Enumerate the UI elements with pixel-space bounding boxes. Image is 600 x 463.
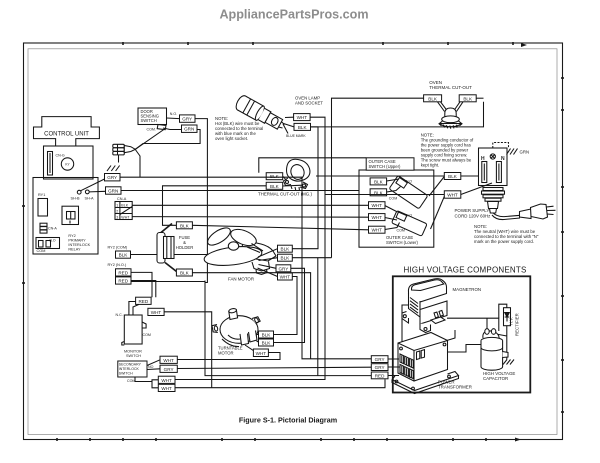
svg-text:GRY: GRY [375, 357, 385, 362]
svg-text:N.O: N.O [50, 238, 56, 242]
frame tick marks [22, 42, 564, 441]
wire sec interlock to GRY [147, 368, 160, 371]
svg-text:BLK: BLK [281, 256, 291, 261]
wire door GRY vertical [130, 119, 207, 255]
svg-text:GRN: GRN [184, 127, 194, 132]
label BLK (oven tco right) [459, 95, 476, 102]
svg-text:CN-A: CN-A [117, 197, 127, 201]
wire red1 elbow [131, 272, 152, 297]
svg-text:GRY: GRY [182, 117, 192, 122]
wire fuse BLK top run [192, 225, 368, 230]
high voltage box [393, 276, 531, 392]
svg-text:Figure S-1. Pictorial Diagram: Figure S-1. Pictorial Diagram [239, 416, 337, 425]
svg-text:NOTE:The grounding conductor o: NOTE:The grounding conductor ofthe power… [421, 133, 474, 168]
svg-text:COM.: COM. [147, 127, 156, 131]
svg-text:COM: COM [389, 197, 397, 201]
svg-text:RECTIFIER: RECTIFIER [514, 313, 519, 336]
frame arrows [521, 43, 527, 47]
label BLK (tt 2) [259, 339, 274, 346]
wire connector ground stem [118, 155, 120, 163]
wire sec interlock to WHT [147, 360, 160, 366]
svg-text:COM: COM [143, 333, 151, 337]
oven thermal cut-out device [438, 102, 464, 129]
label GRN (door) [182, 125, 198, 132]
wire fan BLK2 down [292, 258, 331, 376]
wire sec GRY to xfmr GRY2 [177, 367, 371, 368]
wire magnetron right to rectifier [447, 318, 499, 331]
ground receptacle [493, 143, 509, 149]
wire CN-A row3 run [132, 216, 368, 219]
svg-text:RED: RED [118, 279, 128, 284]
svg-text:MONITORSWITCH: MONITORSWITCH [124, 350, 142, 359]
label RED (monitor) [136, 297, 152, 304]
connector CN-A block [115, 202, 132, 220]
svg-text:N.C.: N.C. [116, 313, 123, 317]
connector 3-pin door [113, 144, 136, 155]
wire blue mark pointer [283, 124, 288, 134]
label BLK (lamp) [294, 123, 311, 130]
svg-text:N.O: N.O [406, 214, 412, 218]
svg-text:WHT: WHT [121, 215, 130, 219]
svg-text:THERMAL CUT-OUT (MG.): THERMAL CUT-OUT (MG.) [258, 192, 312, 197]
svg-text:SH-A: SH-A [85, 196, 95, 200]
svg-text:BLK: BLK [298, 125, 308, 130]
svg-text:FAN MOTOR: FAN MOTOR [228, 277, 254, 282]
svg-text:WHT: WHT [447, 193, 458, 198]
svg-text:CONTROL UNIT: CONTROL UNIT [44, 131, 89, 137]
svg-text:BLK: BLK [281, 247, 291, 252]
wire red3 to monitor [129, 302, 136, 316]
label GRY (xfmr 2) [371, 364, 388, 371]
svg-text:GRY: GRY [164, 367, 174, 372]
wire lamp to WHT [285, 116, 294, 118]
wire connector down lead [135, 150, 140, 178]
svg-text:BLK: BLK [374, 179, 384, 184]
wire monitor com lever [142, 322, 146, 328]
svg-text:GRY: GRY [107, 175, 117, 180]
wire monitor wht [164, 312, 212, 388]
label RED (ry2 1) [116, 269, 132, 276]
svg-text:BLK: BLK [180, 271, 190, 276]
svg-text:BLK: BLK [463, 96, 473, 101]
wire red2 elbow [131, 281, 156, 298]
svg-text:SH-B: SH-B [71, 196, 81, 200]
wire lamp to BLK [284, 124, 295, 127]
border frame inner [28, 49, 557, 435]
svg-text:RED: RED [138, 299, 148, 304]
wire fan WHT down to tt BLK1 [274, 277, 298, 335]
svg-text:WHT: WHT [371, 228, 382, 233]
oven lamp and socket [234, 94, 287, 133]
wire rectifier to capacitor [496, 326, 507, 360]
label GRY (control) [105, 174, 121, 181]
svg-text:CN-G: CN-G [56, 154, 65, 158]
svg-text:AppliancePartsPros.com: AppliancePartsPros.com [219, 8, 368, 22]
wire sec WHT2 bottom run [175, 379, 385, 387]
svg-text:RY2 (N.O.): RY2 (N.O.) [108, 263, 127, 267]
wire tt WHT to sec interlock [177, 353, 280, 360]
label BLK (fan 1) [278, 245, 293, 252]
secondary interlock switch [118, 361, 147, 377]
svg-text:WHT: WHT [161, 386, 172, 391]
svg-text:POWER SUPPLYCORD 120V 60Hz: POWER SUPPLYCORD 120V 60Hz [455, 208, 491, 219]
border frame outer [24, 43, 563, 440]
control board CN-G [44, 146, 94, 179]
wire receptacle WHT to bus [325, 194, 444, 196]
label RED (ry2 2) [116, 277, 132, 284]
wire ocs upper leads [387, 179, 400, 181]
svg-text:BLK: BLK [121, 203, 128, 207]
svg-text:COM: COM [397, 229, 405, 233]
svg-text:BLK: BLK [448, 174, 458, 179]
wire oven tco left run [259, 98, 424, 173]
wire fuse BLK bottom run [192, 273, 310, 359]
wire GRN to SH-A [89, 190, 105, 193]
wire CN-A row1 run [132, 204, 368, 206]
N.O. terminal block [36, 238, 60, 249]
svg-text:BLK: BLK [180, 223, 190, 228]
node SH-B [77, 190, 81, 194]
outer case switch enclosure [359, 170, 434, 247]
svg-text:1: 1 [116, 203, 118, 207]
wire fan GRY down to tt BLK2 [274, 268, 305, 342]
power transformer [392, 333, 459, 394]
svg-text:COM: COM [37, 249, 46, 253]
svg-text:RED: RED [375, 373, 385, 378]
svg-text:N: N [501, 156, 505, 162]
label BLK (ocs upper 2) [370, 189, 387, 196]
svg-text:NO: NO [148, 365, 154, 369]
label WHT (tt) [253, 349, 268, 357]
svg-text:WHT: WHT [280, 275, 291, 280]
label BLK (fuse bottom) [176, 269, 192, 276]
label WHT (receptacle) [444, 191, 461, 198]
connector CN-A (panel) [40, 223, 47, 233]
label WHT (sec 2) [158, 376, 175, 383]
power cord strain relief [482, 186, 505, 214]
label BLK (ry2 com) [116, 251, 131, 258]
wire sec interlock COM [135, 377, 158, 382]
wire ocs lower to WHT right [431, 197, 445, 230]
wire main: lamp WHT bus vertical [175, 117, 325, 379]
power plug [492, 204, 556, 220]
svg-text:BLK: BLK [270, 184, 280, 189]
label BLK (tt 1) [259, 331, 274, 338]
label BLK (ocs upper 1) [370, 178, 387, 185]
svg-text:GRY: GRY [278, 266, 288, 271]
node SH-A [85, 190, 89, 194]
label WHT (monitor) [148, 308, 164, 315]
wire WHT to N slot [461, 183, 492, 195]
label GRN (control) [106, 187, 122, 194]
svg-text:COM: COM [127, 379, 135, 383]
outer case switch upper label [366, 158, 414, 170]
label WHT (sec 1) [160, 356, 177, 363]
label BLK (fan 2) [278, 254, 293, 261]
wire BLK to H slot [461, 175, 479, 177]
label GRY (sec) [160, 365, 177, 372]
wire rectifier top [499, 304, 507, 318]
label RED (xfmr) [371, 372, 388, 379]
svg-text:WHT: WHT [163, 358, 174, 363]
svg-text:BLK: BLK [262, 333, 272, 338]
svg-text:RED: RED [118, 271, 128, 276]
svg-text:N.O: N.O [406, 180, 412, 184]
fuse holder [157, 224, 177, 272]
wire GRY to SH-B [81, 179, 105, 191]
label WHT (ocs 3) [369, 226, 386, 233]
svg-text:3: 3 [116, 215, 118, 219]
wire transformer secondary to magnetron [432, 330, 455, 345]
svg-text:WHT: WHT [256, 351, 267, 356]
wire ocs lower leads [385, 206, 398, 213]
wire RED bus [205, 281, 371, 376]
wire tt leads [245, 335, 259, 353]
wire connector to door COM [135, 128, 166, 149]
label GRY (xfmr 1) [371, 356, 388, 363]
rectifier [504, 308, 511, 326]
wire door GRN to connector [135, 130, 200, 150]
wire door switch N.O. lever [167, 117, 180, 120]
svg-text:BLK: BLK [428, 96, 438, 101]
receptacle terminal block [479, 148, 508, 186]
svg-text:H.V.: H.V. [509, 317, 514, 325]
door sensing switch [138, 108, 167, 130]
label BLK (tco mg 1) [266, 173, 283, 180]
wire lamp BLK run to receptacle corner [311, 102, 484, 127]
label GRY (fan) [276, 265, 291, 272]
svg-text:OVEN LAMPAND SOCKET: OVEN LAMPAND SOCKET [295, 96, 323, 106]
control unit banner [34, 117, 100, 146]
wire ocs upper to BLK right [429, 177, 444, 197]
svg-text:RY2 (COM): RY2 (COM) [108, 246, 128, 250]
relay panel [33, 178, 98, 255]
wire lamp BLK to fan BLK1 [292, 127, 318, 249]
svg-text:H: H [481, 156, 485, 162]
wire xfmr stubs [388, 359, 400, 376]
wire GRN control run [121, 190, 359, 192]
label BLK (tco mg 2) [266, 182, 283, 189]
wire magnetron left down [402, 305, 409, 348]
label BLK (oven tco left) [424, 95, 442, 102]
svg-text:GRN: GRN [108, 189, 118, 194]
wire tco mg2 to fuse [163, 186, 267, 226]
relay RY2 [62, 206, 79, 224]
label WHT (fan) [278, 273, 293, 280]
wire junction vertical [205, 255, 207, 283]
svg-text:WHT: WHT [151, 310, 162, 315]
svg-text:WHT: WHT [371, 203, 382, 208]
wire hot vertical extension [331, 158, 333, 258]
svg-text:2: 2 [116, 209, 118, 213]
turntable motor [212, 308, 260, 347]
svg-text:HIGH VOLTAGE COMPONENTS: HIGH VOLTAGE COMPONENTS [404, 265, 527, 274]
svg-text:BLK: BLK [262, 341, 272, 346]
svg-text:GRY: GRY [375, 365, 385, 370]
hv capacitor [481, 329, 508, 370]
svg-text:WHT: WHT [161, 378, 172, 383]
ground door connector [107, 166, 120, 172]
svg-text:N.O.: N.O. [170, 112, 177, 116]
wire capacitor to magnetron line [486, 318, 488, 328]
monitor switch [124, 315, 142, 344]
svg-text:WHT: WHT [297, 115, 308, 120]
magnetron [402, 279, 447, 333]
label WHT (sec 3) [158, 384, 175, 391]
svg-text:BLK: BLK [119, 253, 129, 258]
wire tco mg to receptacle BLK [316, 175, 444, 177]
wire transformer to capacitor [448, 345, 481, 353]
label BLK (receptacle) [444, 173, 461, 180]
label BLK (fuse top) [176, 222, 192, 229]
svg-text:CN-A: CN-A [48, 227, 57, 231]
svg-text:WHT: WHT [371, 215, 382, 220]
label GRY (door) [180, 115, 196, 122]
thermal cut-out MG device [284, 159, 310, 190]
wire door COM lever [163, 128, 182, 130]
svg-text:MAGNETRON: MAGNETRON [453, 287, 482, 292]
wire oven tco right corner [476, 97, 483, 99]
fan motor [203, 225, 276, 275]
label WHT (ocs 1) [369, 202, 386, 209]
wire fan leads [258, 249, 278, 277]
outer case switch lower body [392, 211, 428, 237]
wire GRY control run [120, 177, 371, 359]
label WHT (lamp) [294, 114, 311, 121]
wire tco mg leads [283, 176, 303, 186]
outer case switch upper body [389, 176, 428, 209]
label WHT (ocs 2) [369, 214, 386, 221]
wire tco y158 to ocs [332, 157, 367, 159]
svg-text:GRN: GRN [520, 150, 530, 155]
svg-text:RY1: RY1 [38, 193, 45, 197]
svg-text:BLUE MARK: BLUE MARK [286, 134, 306, 138]
